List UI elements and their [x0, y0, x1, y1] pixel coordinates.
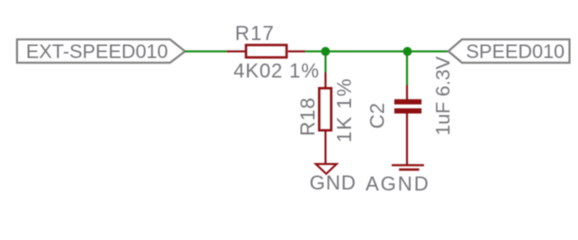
svg-text:R17: R17	[235, 23, 275, 45]
net label SPEED010	[448, 39, 569, 62]
svg-text:AGND: AGND	[366, 173, 431, 195]
svg-text:SPEED010: SPEED010	[466, 41, 565, 63]
svg-text:4K02 1%: 4K02 1%	[234, 60, 320, 82]
wire net from R17 to SPEED010 flag	[305, 50, 448, 52]
wire down to C2	[406, 51, 408, 85]
svg-text:EXT-SPEED010: EXT-SPEED010	[26, 41, 168, 63]
node junction at C2 branch	[403, 47, 412, 56]
node junction at R18 branch	[321, 47, 330, 56]
resistor R17	[227, 45, 305, 57]
svg-text:C2: C2	[367, 102, 389, 128]
wire net from EXT-SPEED010 flag to R17	[185, 50, 227, 52]
wire down to R18	[325, 51, 327, 72]
ground AGND	[392, 165, 424, 169]
svg-text:1uF 6.3V: 1uF 6.3V	[433, 56, 455, 135]
svg-text:1K 1%: 1K 1%	[334, 78, 356, 143]
capacitor C2	[394, 85, 421, 165]
net label EXT-SPEED010	[17, 39, 185, 62]
ground GND	[316, 164, 337, 174]
svg-text:R18: R18	[298, 97, 320, 136]
resistor R18	[319, 73, 331, 164]
svg-text:GND: GND	[310, 173, 357, 195]
